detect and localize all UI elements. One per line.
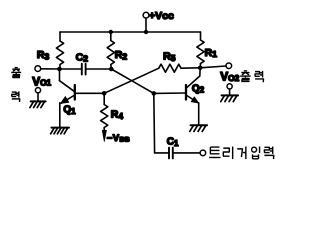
ground output1 — [31, 100, 46, 102]
node A (R3/C2/Q1 collector) — [57, 67, 62, 72]
wire Q1 base — [75, 92, 104, 94]
label Vo2 output 출 — [240, 71, 251, 82]
label output (left, vertical) 출 — [11, 68, 21, 78]
resistor R1 — [200, 32, 202, 40]
terminal +Vcc — [143, 12, 149, 18]
terminal trigger input — [200, 150, 206, 156]
svg-text:VO1: VO1 — [32, 74, 51, 88]
wire Q2 base — [154, 92, 186, 94]
svg-text:R3: R3 — [37, 49, 50, 61]
svg-text:R4: R4 — [111, 108, 124, 120]
transistor Q2 — [199, 68, 201, 76]
label trigger input 트리거입력 — [209, 147, 220, 157]
node B (R2 bottom/C2) — [109, 67, 114, 72]
node C (R1/R5/Vo2/Q2 collector) — [198, 66, 203, 71]
node R2 top — [109, 30, 113, 34]
svg-text:R2: R2 — [115, 49, 128, 61]
capacitor C1 — [155, 152, 169, 154]
node Q2 base/trigger — [152, 91, 157, 96]
wire cross-couple R2 to Q2 base (diagonal A) — [111, 69, 154, 93]
svg-text:Q2: Q2 — [192, 83, 205, 94]
svg-text:−VBB: −VBB — [107, 133, 130, 144]
label Vo2 output 력 — [255, 71, 264, 82]
svg-text:C1: C1 — [167, 137, 179, 148]
resistor R5 — [159, 64, 181, 72]
svg-text:R5: R5 — [163, 51, 176, 63]
wire cross-couple Q1 base to R5 (diagonal B) — [104, 68, 159, 93]
svg-text:C2: C2 — [76, 51, 89, 63]
capacitor C2 — [60, 68, 82, 70]
svg-text:R1: R1 — [205, 47, 218, 59]
svg-text:Q1: Q1 — [63, 105, 76, 116]
wire trigger vertical — [153, 93, 156, 152]
terminal output2 ground side — [227, 84, 232, 89]
ground Q1 emitter — [51, 127, 68, 129]
wire Vcc drop — [145, 18, 147, 32]
terminal Vo2 — [226, 63, 232, 69]
terminal Vo1 — [35, 66, 41, 72]
supply arrow -VBB — [102, 130, 106, 141]
wire Vcc rail — [60, 31, 201, 33]
resistor R3 — [59, 32, 61, 41]
wire to Vo2 — [200, 66, 226, 68]
resistor R2 — [110, 32, 112, 41]
ground Q2 emitter — [191, 124, 208, 126]
resistor R4 — [103, 93, 105, 104]
wire Vo1 to node A — [41, 68, 60, 70]
transistor Q1 — [59, 69, 61, 81]
svg-text:VO2: VO2 — [220, 70, 239, 84]
ground output2 — [222, 94, 239, 96]
terminal output1 ground side — [35, 88, 40, 93]
node Vcc junction — [144, 30, 148, 34]
node Q1 base/R4 — [102, 91, 107, 96]
svg-text:+Vcc: +Vcc — [149, 10, 174, 22]
label output (left, vertical) 력 — [12, 91, 20, 102]
